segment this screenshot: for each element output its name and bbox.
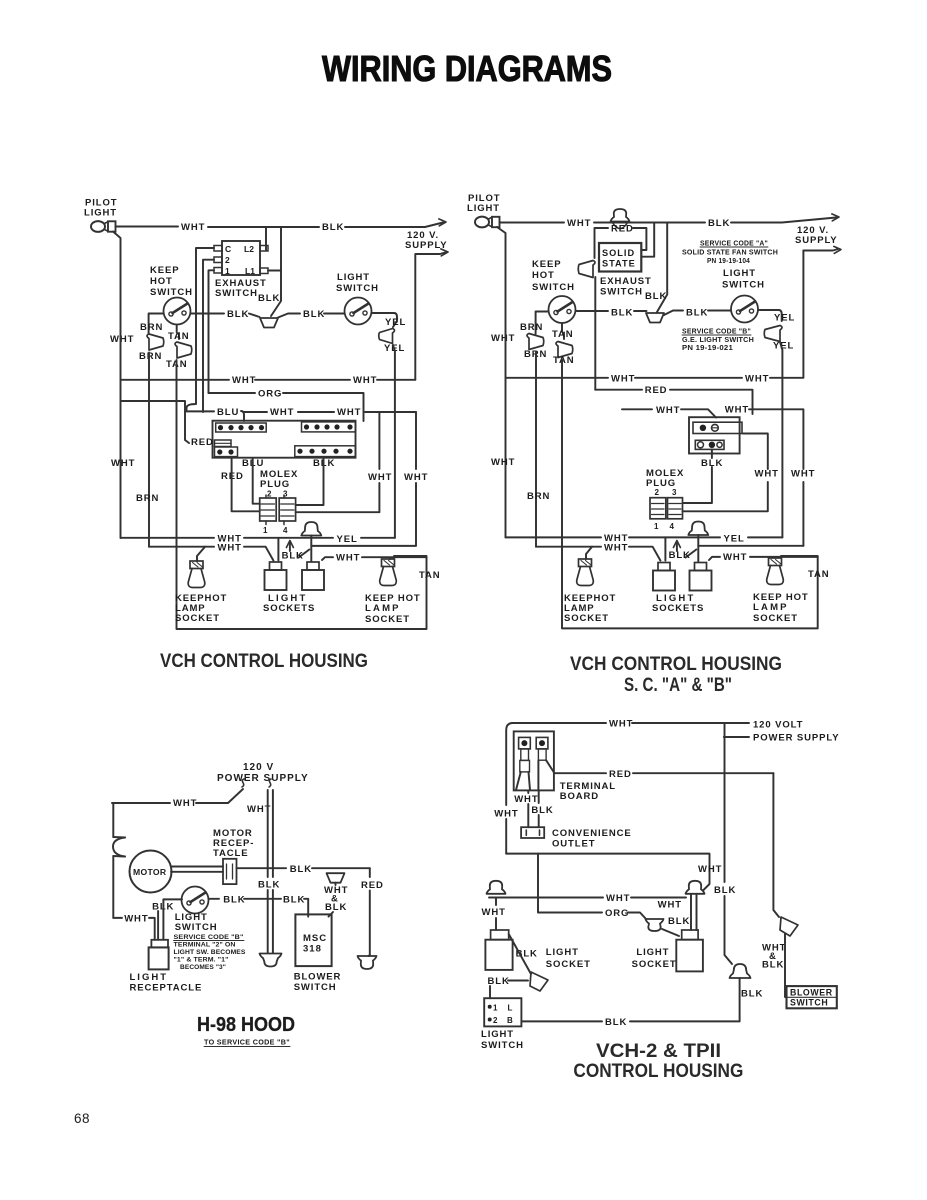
label KEEPHOT LAMP SOCKET bbox=[175, 593, 227, 624]
label BLU bbox=[217, 407, 239, 418]
svg-text:ORG: ORG bbox=[258, 389, 282, 400]
svg-text:RED: RED bbox=[361, 880, 384, 891]
label BLOWER SWITCH 3 bbox=[294, 972, 342, 994]
wire WHT right dome down bbox=[691, 894, 697, 930]
svg-text:BLOWER: BLOWER bbox=[294, 972, 342, 983]
svg-text:2: 2 bbox=[267, 490, 272, 499]
light socket LS5 bbox=[485, 930, 512, 970]
svg-text:SOCKET: SOCKET bbox=[175, 613, 220, 624]
svg-text:SOCKET: SOCKET bbox=[753, 613, 798, 624]
label BLK bbox=[611, 308, 633, 319]
svg-text:LIGHT: LIGHT bbox=[337, 272, 370, 283]
caption CONTROL HOUSING 4 bbox=[573, 1061, 743, 1082]
terminal board box bbox=[514, 731, 554, 790]
wire rail2 to keephot socket bbox=[197, 547, 205, 561]
pilot light PL1 label bbox=[84, 198, 117, 219]
svg-text:WHT: WHT bbox=[111, 458, 135, 469]
svg-text:SOCKET: SOCKET bbox=[632, 959, 677, 970]
svg-text:LIGHT SW. BECOMES: LIGHT SW. BECOMES bbox=[174, 949, 246, 956]
svg-text:YEL: YEL bbox=[774, 313, 795, 324]
wire top under dome bbox=[594, 218, 836, 223]
wire BLK switch up bbox=[490, 981, 528, 999]
label BLK bbox=[669, 550, 691, 561]
caption to service code b bbox=[204, 1040, 290, 1047]
svg-text:SWITCH: SWITCH bbox=[294, 982, 337, 993]
light socket LS1 bbox=[265, 562, 287, 590]
connector funnel below wire bbox=[327, 873, 345, 883]
label WHT bbox=[514, 794, 538, 805]
wire WHT socket4 right bbox=[709, 557, 818, 560]
svg-text:WHT: WHT bbox=[609, 719, 633, 730]
svg-text:CONVENIENCE: CONVENIENCE bbox=[552, 828, 632, 839]
label YEL bbox=[384, 343, 405, 354]
svg-text:68: 68 bbox=[74, 1111, 90, 1126]
wire BLK junction to light switch2 bbox=[664, 311, 731, 316]
svg-text:CONTROL HOUSING: CONTROL HOUSING bbox=[573, 1061, 743, 1082]
light socket LS6 bbox=[676, 930, 703, 971]
svg-text:BLK: BLK bbox=[258, 880, 280, 891]
svg-text:120 V: 120 V bbox=[243, 762, 274, 773]
label service code b small bbox=[174, 934, 246, 971]
wire BLU hook bbox=[241, 411, 244, 421]
wire WHT top 4 bbox=[512, 722, 725, 724]
label BLK bbox=[668, 916, 690, 927]
svg-text:KEEP: KEEP bbox=[150, 265, 179, 276]
wire RED strip to molex bbox=[232, 458, 260, 511]
svg-text:SOCKET: SOCKET bbox=[546, 959, 591, 970]
terminal strip TL row bbox=[216, 423, 267, 432]
svg-text:LIGHT: LIGHT bbox=[636, 947, 669, 958]
svg-text:YEL: YEL bbox=[773, 341, 794, 352]
wire WHT pilot down bbox=[113, 232, 121, 539]
wire RED loop right bbox=[633, 228, 646, 250]
svg-text:LIGHT: LIGHT bbox=[84, 208, 117, 219]
caption VCH CONTROL HOUSING 2 bbox=[570, 654, 782, 675]
wire WHT pilot to supply bbox=[116, 223, 444, 228]
label BLK bbox=[258, 880, 280, 891]
wire L1 tab right bbox=[268, 270, 281, 272]
wire BLK keep hot2 bbox=[576, 310, 647, 312]
wire WHT vertical pair left bbox=[267, 790, 269, 953]
label WHT bbox=[482, 907, 506, 918]
svg-text:EXHAUST: EXHAUST bbox=[600, 276, 652, 287]
label RED bbox=[609, 769, 632, 780]
label WHT bbox=[124, 914, 148, 925]
svg-text:POWER SUPPLY: POWER SUPPLY bbox=[753, 733, 839, 744]
wire BLK main vertical bbox=[725, 723, 733, 964]
keep hot switch tail bbox=[177, 325, 179, 339]
svg-text:MSC: MSC bbox=[303, 933, 327, 944]
svg-text:G.E. LIGHT SWITCH: G.E. LIGHT SWITCH bbox=[682, 337, 754, 344]
label WHT bbox=[181, 222, 205, 233]
keep hot lamp socket right 2 bbox=[767, 558, 784, 585]
caption VCH CONTROL HOUSING bbox=[160, 651, 368, 672]
label WHT bbox=[232, 375, 256, 386]
label TAN bbox=[808, 569, 830, 580]
label WHT bbox=[611, 373, 635, 384]
wire BLK junction to light switch bbox=[278, 314, 344, 318]
label TAN bbox=[553, 355, 575, 366]
wire dome to socket2 bbox=[311, 412, 416, 562]
light receptacle bbox=[149, 940, 169, 970]
solid state dome bbox=[611, 209, 630, 229]
svg-text:BLK: BLK bbox=[227, 309, 249, 320]
label 120 V. SUPPLY bbox=[405, 230, 448, 251]
svg-text:WHT: WHT bbox=[218, 543, 242, 554]
wire BLK switch right bbox=[209, 899, 309, 917]
connector dome bottom 4 bbox=[730, 964, 751, 978]
svg-text:BLK: BLK bbox=[605, 1017, 627, 1028]
label ORG bbox=[605, 908, 629, 919]
molex pin labels bottom bbox=[263, 526, 288, 535]
label BRN bbox=[524, 349, 547, 360]
convenience outlet bbox=[521, 827, 544, 838]
wire 120V supply2 line2 bbox=[803, 249, 838, 251]
label BLK bbox=[516, 949, 538, 960]
connector TAN pair bbox=[175, 342, 192, 358]
label LIGHT SOCKETS bbox=[263, 593, 315, 614]
label BRN bbox=[139, 351, 162, 362]
label WHT bbox=[173, 798, 197, 809]
wire BLK vertical2 bbox=[657, 223, 667, 313]
pilot light PL2 label bbox=[467, 193, 500, 214]
wire WHT dome left down bbox=[495, 898, 497, 931]
wire BLK keep hot to junction bbox=[191, 314, 260, 318]
svg-text:STATE: STATE bbox=[602, 259, 636, 269]
svg-text:WHT: WHT bbox=[368, 472, 392, 483]
svg-text:BECOMES "3": BECOMES "3" bbox=[180, 964, 226, 971]
label WHT bbox=[604, 542, 628, 553]
wire WHT to supply bbox=[112, 789, 243, 803]
wire RED loop left bbox=[595, 228, 609, 258]
svg-text:4: 4 bbox=[283, 526, 288, 535]
wire WHT long rail 4 bbox=[506, 854, 709, 891]
svg-text:SWITCH: SWITCH bbox=[175, 922, 218, 933]
label WHT and BLK bbox=[324, 885, 348, 913]
svg-text:1: 1 bbox=[654, 522, 659, 531]
svg-text:SOLID STATE FAN SWITCH: SOLID STATE FAN SWITCH bbox=[682, 250, 778, 257]
svg-text:BLK: BLK bbox=[223, 895, 245, 906]
wire RED rail 2 bbox=[595, 390, 752, 414]
svg-text:TAN: TAN bbox=[553, 355, 575, 366]
wire WHT left vertical bbox=[112, 803, 114, 918]
svg-text:TAN: TAN bbox=[552, 329, 574, 340]
wire BLK strip to molex bbox=[296, 458, 324, 505]
svg-text:BLU: BLU bbox=[217, 407, 239, 418]
svg-text:SOCKET: SOCKET bbox=[365, 614, 410, 625]
svg-text:WHT: WHT bbox=[658, 900, 682, 911]
molex pin labels top bbox=[267, 490, 288, 499]
wire WHT lamp rail1 2 bbox=[506, 536, 783, 538]
svg-text:WHT: WHT bbox=[494, 809, 518, 820]
svg-text:OUTLET: OUTLET bbox=[552, 839, 595, 850]
svg-text:WHT: WHT bbox=[337, 407, 361, 418]
pilot light PL1 bbox=[91, 221, 116, 232]
svg-text:L2: L2 bbox=[244, 244, 254, 254]
caption VCH-2 and TPII bbox=[596, 1041, 721, 1062]
wire WHT lamp rail 4 bbox=[489, 897, 686, 899]
wire WHT pilot2 top bbox=[500, 222, 565, 224]
light socket LS4 bbox=[690, 563, 712, 591]
connector dome RED bottom bbox=[358, 955, 377, 969]
svg-text:SWITCH: SWITCH bbox=[790, 998, 828, 1008]
svg-text:BRN: BRN bbox=[527, 491, 550, 502]
label BLK bbox=[741, 989, 763, 1000]
svg-text:BLOWER: BLOWER bbox=[790, 988, 833, 998]
svg-text:VCH CONTROL HOUSING: VCH CONTROL HOUSING bbox=[570, 654, 782, 675]
connector BRN pair bbox=[147, 334, 164, 350]
svg-text:WHT: WHT bbox=[181, 222, 205, 233]
label WHT bbox=[745, 373, 769, 384]
svg-text:2: 2 bbox=[655, 488, 660, 497]
svg-text:KEEP: KEEP bbox=[532, 259, 561, 270]
svg-text:LIGHT: LIGHT bbox=[130, 972, 169, 983]
svg-text:SWITCH: SWITCH bbox=[722, 280, 765, 291]
svg-text:BLK: BLK bbox=[303, 309, 325, 320]
terminal strip TR row bbox=[302, 422, 356, 432]
label WHT bbox=[337, 407, 361, 418]
wire BLK receptacle right bbox=[237, 867, 370, 869]
label BLK bbox=[605, 1017, 627, 1028]
label WHT bbox=[609, 719, 633, 730]
label WHT bbox=[110, 334, 134, 345]
svg-text:2: 2 bbox=[493, 1016, 498, 1025]
label BLK bbox=[686, 308, 708, 319]
svg-text:SWITCH: SWITCH bbox=[481, 1040, 524, 1051]
label LIGHT SOCKETS 2 bbox=[652, 593, 704, 614]
svg-text:BLK: BLK bbox=[258, 293, 280, 304]
svg-text:4: 4 bbox=[670, 522, 675, 531]
keep hot lamp socket left bbox=[188, 561, 205, 588]
label BLK bbox=[303, 309, 325, 320]
label SERVICE CODE A text bbox=[682, 241, 778, 266]
label BRN bbox=[136, 493, 159, 504]
svg-text:LIGHT: LIGHT bbox=[546, 947, 579, 958]
svg-text:WHT: WHT bbox=[482, 907, 506, 918]
label YEL bbox=[724, 534, 745, 545]
svg-text:VCH-2 & TPII: VCH-2 & TPII bbox=[596, 1041, 721, 1062]
label YEL bbox=[773, 341, 794, 352]
svg-text:3: 3 bbox=[672, 488, 677, 497]
light switch box 4 bbox=[484, 998, 521, 1026]
label WHT bbox=[218, 543, 242, 554]
svg-text:PN 19-19-021: PN 19-19-021 bbox=[682, 345, 733, 352]
svg-text:S. C. "A" & "B": S. C. "A" & "B" bbox=[624, 675, 732, 696]
label KEEPHOT LAMP SOCKET 2 bbox=[564, 593, 616, 624]
svg-text:BLK: BLK bbox=[714, 885, 736, 896]
wire to RED terminal bbox=[121, 401, 189, 443]
power supply terminal squiggle 2 bbox=[269, 779, 271, 787]
label LIGHT SWITCH 3 bbox=[175, 912, 218, 933]
label 120 V. SUPPLY bbox=[795, 225, 838, 246]
wire BLK board down bbox=[538, 790, 540, 827]
svg-text:WHT: WHT bbox=[491, 457, 515, 468]
label MOLEX PLUG bbox=[646, 468, 684, 489]
assembly screws top bbox=[693, 422, 742, 433]
label BLK bbox=[282, 551, 304, 562]
terminal board plug right bbox=[536, 737, 554, 790]
svg-text:RED: RED bbox=[609, 769, 632, 780]
svg-text:WHT: WHT bbox=[110, 334, 134, 345]
wire flag to blower bbox=[785, 934, 787, 997]
svg-text:WIRING DIAGRAMS: WIRING DIAGRAMS bbox=[322, 48, 612, 89]
wire keep hot left bbox=[149, 314, 164, 335]
wire BLK vertical to junction bbox=[271, 227, 281, 316]
keep hot switch tail bbox=[562, 323, 564, 339]
label KEEP HOT LAMP SOCKET bbox=[365, 593, 421, 625]
label WHT bbox=[791, 469, 815, 480]
junction connector BLK bbox=[260, 318, 278, 328]
socket dome light2 bbox=[301, 522, 321, 536]
wire WHT socket2 right bbox=[322, 557, 427, 560]
svg-text:1: 1 bbox=[225, 266, 230, 276]
svg-text:VCH CONTROL HOUSING: VCH CONTROL HOUSING bbox=[160, 651, 368, 672]
svg-text:WHT: WHT bbox=[725, 404, 749, 415]
label CONVENIENCE OUTLET bbox=[552, 828, 632, 850]
wire motor to receptacle bbox=[171, 867, 223, 872]
connector flag left vertical bbox=[113, 837, 125, 857]
label KEEP HOT SWITCH bbox=[532, 259, 575, 293]
svg-text:BLK: BLK bbox=[762, 960, 784, 971]
wire TAN enclosure2 bbox=[562, 360, 818, 629]
label RED bbox=[645, 385, 668, 396]
wire dome to socket 2 bbox=[698, 535, 803, 562]
light switch S2 bbox=[345, 298, 372, 325]
label BLK bbox=[322, 222, 344, 233]
svg-text:SWITCH: SWITCH bbox=[150, 287, 193, 298]
wire BLK assembly to molex bbox=[683, 449, 712, 503]
label BLK bbox=[701, 458, 723, 469]
wire rail1 to socket3 bbox=[664, 537, 666, 560]
svg-text:SERVICE CODE "B": SERVICE CODE "B" bbox=[174, 934, 244, 941]
caption H-98 HOOD bbox=[197, 1013, 295, 1036]
svg-text:RED: RED bbox=[191, 437, 214, 448]
wire BLK bottom rail bbox=[521, 978, 739, 1021]
wire 120V supply line2 bbox=[416, 253, 445, 255]
svg-text:C: C bbox=[225, 244, 231, 254]
svg-text:WHT: WHT bbox=[723, 552, 747, 563]
svg-text:BLK: BLK bbox=[611, 308, 633, 319]
label LIGHT SWITCH bbox=[722, 268, 765, 291]
label RED bbox=[221, 471, 244, 482]
label BLK junction bbox=[258, 293, 280, 304]
assembly screws bottom bbox=[695, 440, 724, 449]
wire WHT pilot2 down bbox=[497, 227, 506, 537]
label BLK bbox=[223, 895, 245, 906]
svg-text:WHT: WHT bbox=[604, 542, 628, 553]
junction connector BLK 2 bbox=[646, 313, 664, 323]
label BLK bbox=[488, 976, 510, 987]
label TAN bbox=[168, 331, 190, 342]
svg-text:SOCKETS: SOCKETS bbox=[263, 603, 315, 614]
node supply2 vertical bbox=[802, 251, 804, 378]
molex pin labels top2 bbox=[655, 488, 678, 497]
label MOLEX PLUG bbox=[260, 469, 298, 490]
motor receptacle bbox=[223, 859, 237, 884]
label BLK msc bbox=[283, 895, 305, 906]
svg-text:WHT: WHT bbox=[656, 405, 680, 416]
label WHT bbox=[723, 552, 747, 563]
wire ORG rail bbox=[209, 393, 364, 421]
svg-text:WHT: WHT bbox=[124, 914, 148, 925]
label BLK bbox=[152, 902, 174, 913]
wire BLK arrow socket 2 bbox=[673, 541, 696, 558]
label WHT bbox=[218, 534, 242, 545]
light socket LS3 bbox=[653, 563, 675, 591]
label TAN bbox=[419, 570, 441, 581]
svg-text:SOCKET: SOCKET bbox=[564, 613, 609, 624]
wire keep hot left2 bbox=[536, 312, 549, 335]
svg-text:TO SERVICE CODE "B": TO SERVICE CODE "B" bbox=[204, 1040, 290, 1047]
connector YEL pair2 bbox=[764, 326, 782, 342]
svg-text:2: 2 bbox=[225, 255, 230, 265]
wire RED rail 4 bbox=[554, 772, 773, 774]
svg-text:WHT: WHT bbox=[514, 794, 538, 805]
molex plug J2 bbox=[650, 498, 683, 519]
svg-text:TAN: TAN bbox=[168, 331, 190, 342]
svg-text:WHT: WHT bbox=[755, 469, 779, 480]
label BRN bbox=[527, 491, 550, 502]
svg-text:MOTOR: MOTOR bbox=[133, 867, 167, 877]
label SERVICE CODE B text bbox=[682, 329, 754, 353]
keep hot lamp socket right bbox=[380, 559, 397, 586]
wire YEL down to lamp wire bbox=[393, 345, 395, 538]
svg-text:WHT: WHT bbox=[791, 469, 815, 480]
label RED bbox=[191, 437, 214, 448]
svg-text:SWITCH: SWITCH bbox=[532, 282, 575, 293]
label BRN bbox=[520, 322, 543, 333]
keep hot switch S3 bbox=[549, 296, 576, 323]
connector BRN pair2 bbox=[527, 334, 544, 350]
light switch assembly box bbox=[689, 417, 740, 453]
svg-text:TERMINAL "2" ON: TERMINAL "2" ON bbox=[174, 942, 236, 949]
power supply terminal squiggle 1 bbox=[242, 779, 244, 787]
svg-text:WHT: WHT bbox=[353, 375, 377, 386]
wire WHT lamp rail1 bbox=[121, 537, 395, 539]
wire flag to switch area bbox=[594, 277, 596, 390]
svg-text:SWITCH: SWITCH bbox=[600, 287, 643, 298]
molex plug J1 bbox=[260, 495, 296, 525]
connector flag solid state bbox=[578, 261, 595, 278]
connector dome ORG bbox=[646, 919, 664, 931]
keep hot switch S1 bbox=[164, 298, 191, 325]
caption SC A and B bbox=[624, 675, 732, 696]
label WHT bbox=[491, 333, 515, 344]
svg-text:BLK: BLK bbox=[282, 551, 304, 562]
wire ORG vertical bbox=[537, 854, 539, 907]
label KEEP HOT LAMP SOCKET 2 bbox=[753, 592, 809, 624]
molex pin labels bottom2 bbox=[654, 522, 675, 531]
label BRN bbox=[140, 322, 163, 333]
label WHT bbox=[491, 457, 515, 468]
svg-text:SWITCH: SWITCH bbox=[215, 288, 258, 299]
blower switch box bbox=[787, 986, 837, 1008]
svg-text:BLK: BLK bbox=[488, 976, 510, 987]
label WHT bbox=[404, 472, 428, 483]
label WHT bbox=[725, 404, 749, 415]
svg-text:1: 1 bbox=[493, 1004, 498, 1013]
wire YEL down2 bbox=[780, 342, 782, 537]
light switch S5 bbox=[182, 887, 209, 914]
svg-text:LIGHT: LIGHT bbox=[481, 1029, 514, 1040]
svg-text:YEL: YEL bbox=[385, 317, 406, 328]
svg-text:PN 19-19-104: PN 19-19-104 bbox=[707, 258, 750, 265]
svg-text:WHT: WHT bbox=[404, 472, 428, 483]
svg-text:WHT: WHT bbox=[606, 893, 630, 904]
svg-text:L1: L1 bbox=[245, 266, 255, 276]
svg-text:LAMP: LAMP bbox=[365, 603, 401, 614]
svg-text:BLK: BLK bbox=[325, 902, 347, 913]
